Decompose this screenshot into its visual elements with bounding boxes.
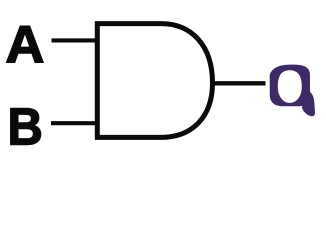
AND gate U1 xyxy=(97,24,212,138)
svg-text:B: B xyxy=(8,98,43,155)
wire output Q xyxy=(213,81,266,85)
node Q xyxy=(270,65,315,117)
svg-text:A: A xyxy=(5,16,44,74)
wire input A xyxy=(52,38,98,42)
wire input B xyxy=(51,121,98,125)
node Q tail xyxy=(302,91,315,116)
